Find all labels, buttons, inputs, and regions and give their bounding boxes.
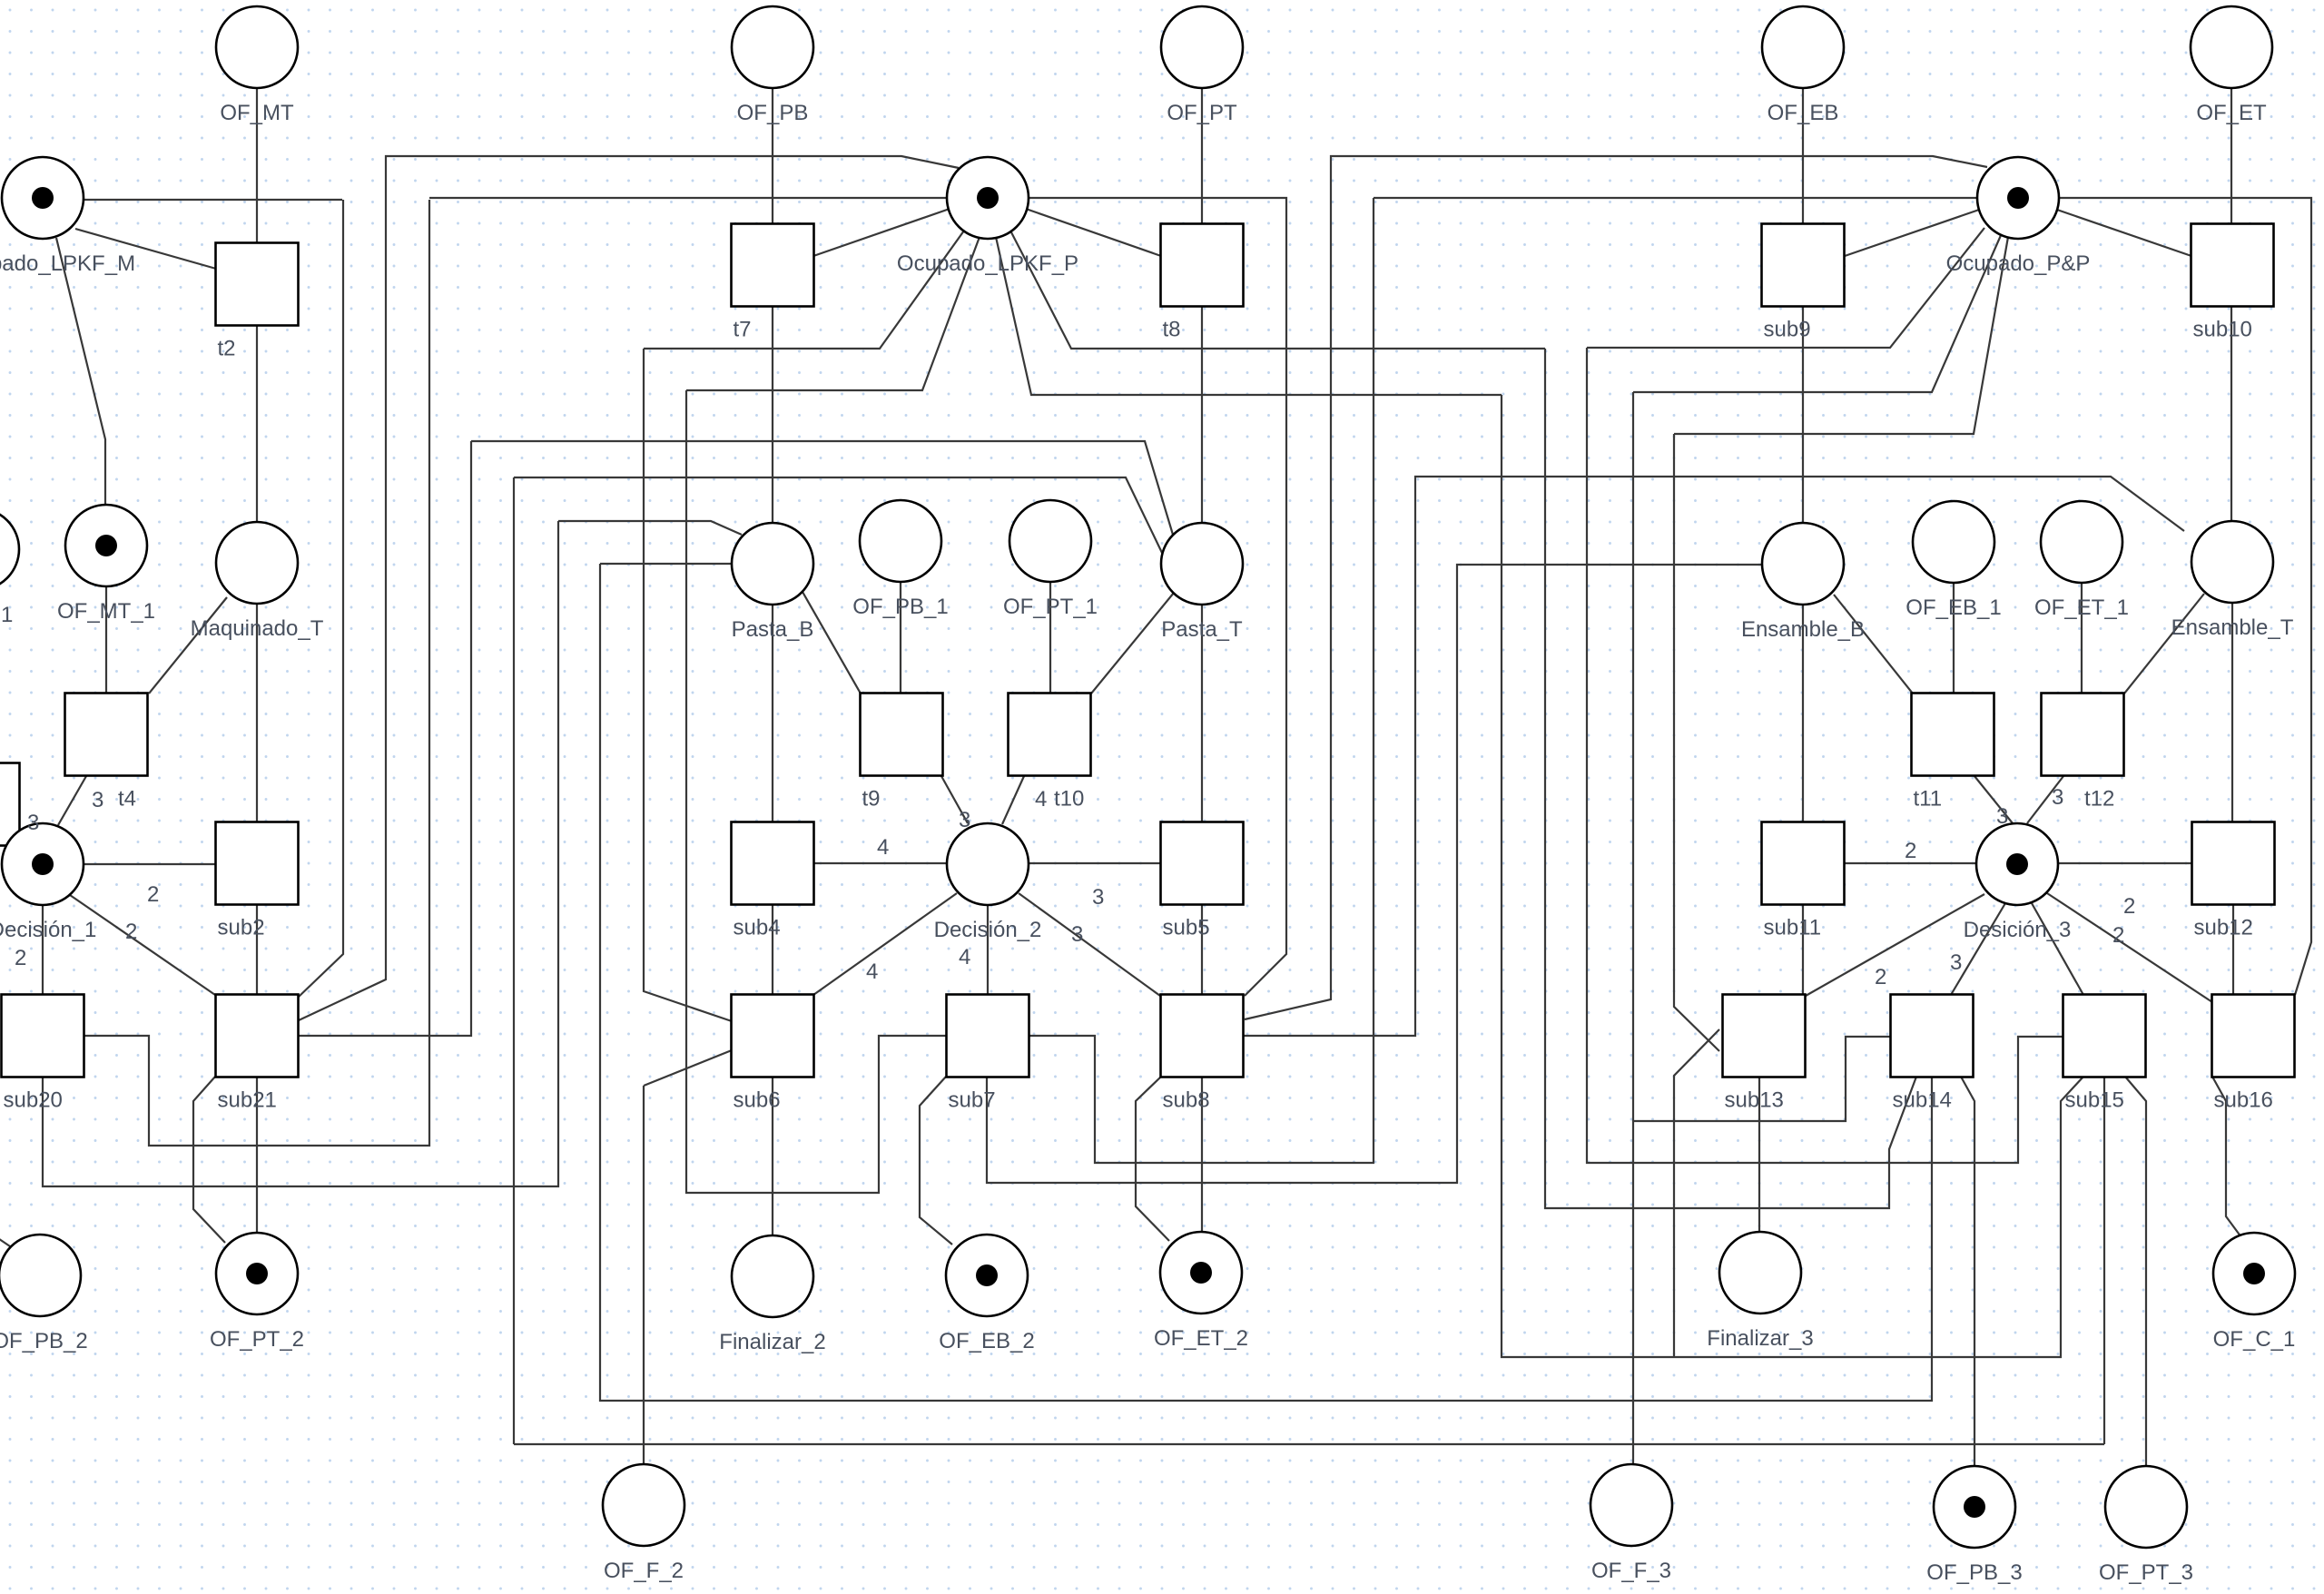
svg-text:Finalizar_2: Finalizar_2 xyxy=(719,1330,825,1354)
svg-text:t11: t11 xyxy=(1914,787,1943,812)
svg-text:OF_MT: OF_MT xyxy=(220,101,294,125)
svg-text:OF_ET_2: OF_ET_2 xyxy=(1154,1326,1248,1351)
svg-text:3: 3 xyxy=(959,808,970,832)
svg-text:Decisión_1: Decisión_1 xyxy=(0,918,96,942)
svg-text:t10: t10 xyxy=(1054,787,1084,812)
svg-text:t12: t12 xyxy=(2084,787,2114,812)
svg-text:sub13: sub13 xyxy=(1725,1088,1784,1113)
svg-text:OF_PB_2: OF_PB_2 xyxy=(0,1329,88,1353)
svg-text:Pasta_T: Pasta_T xyxy=(1161,617,1243,642)
svg-text:sub11: sub11 xyxy=(1764,916,1822,940)
svg-text:2: 2 xyxy=(1905,839,1916,863)
svg-text:OF_PT_3: OF_PT_3 xyxy=(2099,1560,2193,1585)
svg-text:Ensamble_T: Ensamble_T xyxy=(2171,615,2294,640)
svg-text:2: 2 xyxy=(2112,923,2124,948)
svg-text:sub2: sub2 xyxy=(218,916,265,940)
svg-text:OF_PB_3: OF_PB_3 xyxy=(1926,1560,2022,1585)
svg-text:OF_F_3: OF_F_3 xyxy=(1591,1559,1671,1583)
svg-text:sub8: sub8 xyxy=(1163,1088,1210,1113)
svg-text:2: 2 xyxy=(125,920,137,944)
svg-text:sub21: sub21 xyxy=(218,1088,277,1113)
svg-text:2: 2 xyxy=(147,882,159,907)
svg-text:sub9: sub9 xyxy=(1764,318,1811,342)
svg-text:sub4: sub4 xyxy=(734,916,781,940)
svg-text:sub20: sub20 xyxy=(4,1088,63,1113)
svg-text:sub5: sub5 xyxy=(1163,916,1210,940)
svg-text:2: 2 xyxy=(2123,894,2135,919)
svg-text:OF_EB_2: OF_EB_2 xyxy=(939,1329,1034,1353)
svg-text:sub12: sub12 xyxy=(2194,916,2253,940)
svg-text:Ocupado_P&P: Ocupado_P&P xyxy=(1946,251,2091,276)
svg-text:3: 3 xyxy=(1071,922,1083,947)
svg-text:3: 3 xyxy=(1950,950,1962,975)
svg-text:t9: t9 xyxy=(862,787,881,812)
svg-text:3: 3 xyxy=(2052,785,2063,810)
svg-text:OF_PT_2: OF_PT_2 xyxy=(210,1327,304,1352)
svg-text:4: 4 xyxy=(877,835,889,860)
svg-text:t8: t8 xyxy=(1163,318,1181,342)
svg-text:sub15: sub15 xyxy=(2065,1088,2124,1113)
svg-text:3: 3 xyxy=(27,811,39,835)
svg-text:OF_C_1: OF_C_1 xyxy=(2213,1327,2296,1352)
svg-text:Ocupado_LPKF_P: Ocupado_LPKF_P xyxy=(897,251,1078,276)
svg-text:sub14: sub14 xyxy=(1893,1088,1952,1113)
svg-text:2: 2 xyxy=(15,946,26,970)
svg-text:sub16: sub16 xyxy=(2214,1088,2273,1113)
svg-text:sub10: sub10 xyxy=(2193,318,2252,342)
svg-text:3: 3 xyxy=(92,788,103,812)
svg-text:t2: t2 xyxy=(218,337,236,361)
svg-text:Ensamble_B: Ensamble_B xyxy=(1741,617,1865,642)
svg-text:OF_F_2: OF_F_2 xyxy=(604,1559,684,1583)
svg-text:Desición_3: Desición_3 xyxy=(1964,918,2072,942)
svg-text:Maquinado_T: Maquinado_T xyxy=(191,616,324,641)
svg-text:4: 4 xyxy=(1035,787,1047,812)
svg-text:t4: t4 xyxy=(118,787,136,812)
svg-text:4: 4 xyxy=(959,945,970,969)
svg-text:sub7: sub7 xyxy=(949,1088,996,1113)
svg-text:Ocupado_LPKF_M: Ocupado_LPKF_M xyxy=(0,251,135,276)
svg-text:OF_MT_1: OF_MT_1 xyxy=(57,599,155,624)
svg-text:3: 3 xyxy=(1092,885,1104,910)
svg-text:OF_PB: OF_PB xyxy=(737,101,809,125)
svg-text:OF_PT: OF_PT xyxy=(1167,101,1237,125)
svg-text:OF_EB: OF_EB xyxy=(1768,101,1839,125)
svg-text:2: 2 xyxy=(1875,965,1886,989)
svg-text:Finalizar_3: Finalizar_3 xyxy=(1707,1326,1813,1351)
svg-text:OF_ET: OF_ET xyxy=(2196,101,2267,125)
svg-text:Decisión_2: Decisión_2 xyxy=(934,918,1042,942)
svg-text:4: 4 xyxy=(866,959,878,984)
svg-text:sub6: sub6 xyxy=(734,1088,781,1113)
svg-text:OF_ET_1: OF_ET_1 xyxy=(2034,595,2129,620)
svg-text:Pasta_B: Pasta_B xyxy=(732,617,814,642)
svg-text:t7: t7 xyxy=(734,318,752,342)
svg-text:3: 3 xyxy=(1996,804,2008,829)
svg-text:OF_PB_1: OF_PB_1 xyxy=(852,595,948,619)
svg-text:1: 1 xyxy=(1,603,13,627)
svg-text:OF_EB_1: OF_EB_1 xyxy=(1905,595,2001,620)
svg-text:OF_PT_1: OF_PT_1 xyxy=(1003,595,1098,619)
